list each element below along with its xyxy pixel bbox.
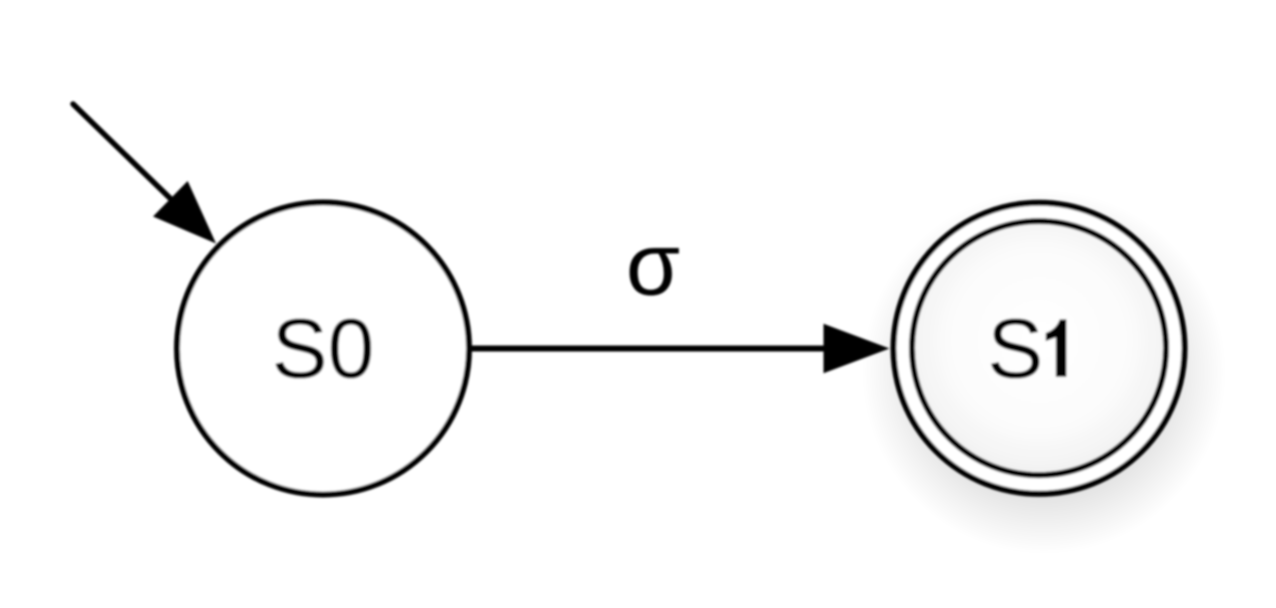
S1 drop shadow bbox=[862, 190, 1226, 554]
label S1 digit 1 (helvetica style, no foot serif) bbox=[1046, 319, 1067, 376]
wire S0 to S1 bbox=[471, 346, 828, 352]
svg-text:S0: S0 bbox=[272, 301, 375, 395]
state S0 bbox=[177, 203, 469, 495]
svg-text:σ: σ bbox=[626, 214, 680, 313]
start arrow wire bbox=[73, 104, 176, 204]
accepting state S1 outer circle bbox=[894, 203, 1185, 494]
start arrowhead bbox=[154, 182, 215, 243]
accepting state S1 inner circle bbox=[912, 221, 1166, 475]
svg-text:S: S bbox=[987, 301, 1043, 395]
transition arrowhead bbox=[824, 325, 888, 373]
